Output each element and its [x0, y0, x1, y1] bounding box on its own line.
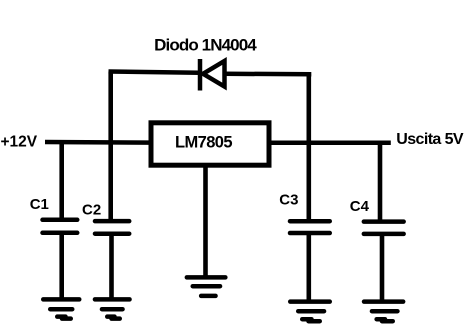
diode D1 triangle	[203, 61, 225, 87]
diode D1 cathode bar	[198, 59, 203, 91]
wire: C2 stub to ground	[109, 234, 114, 300]
capacitor C1 bottom plate	[43, 231, 78, 236]
svg-text:Diodo 1N4004: Diodo 1N4004	[154, 36, 257, 55]
capacitor C3 bottom plate	[290, 231, 330, 236]
capacitor C2 bottom plate	[95, 231, 129, 236]
ground: under C3	[290, 302, 330, 322]
ground: middle (under LM7805)	[187, 277, 226, 296]
capacitor C1 top plate	[43, 218, 78, 223]
svg-text:C3: C3	[279, 192, 298, 209]
wire: LM7805 ground pin stub	[203, 165, 208, 277]
wire: diode loop left leg down through rail to C2	[108, 72, 113, 222]
svg-text:C2: C2	[82, 201, 101, 218]
svg-text:C1: C1	[30, 196, 49, 213]
wire: input rail from +12V to LM7805 input	[45, 140, 152, 145]
ground: under C2	[95, 299, 130, 318]
wire: C4 stub to ground	[380, 234, 385, 302]
wire: output rail from LM7805 to Uscita 5V	[268, 140, 391, 145]
svg-text:+12V: +12V	[1, 134, 38, 151]
svg-text:C4: C4	[350, 198, 370, 215]
svg-text:LM7805: LM7805	[175, 134, 232, 152]
op-amp U1 regulator LM7805 box	[151, 123, 269, 165]
wire: C1 leg from input rail	[59, 142, 64, 220]
wire: C3 stub to ground	[306, 233, 311, 302]
ground: under C1	[43, 299, 79, 318]
capacitor C4 bottom plate	[364, 232, 404, 237]
svg-text:Uscita 5V: Uscita 5V	[396, 131, 464, 148]
wire: diode loop right leg down through output rail to C3	[306, 74, 311, 221]
wire: C4 leg from output rail	[378, 143, 383, 223]
ground: under C4	[364, 302, 403, 322]
wire: C1 stub to ground	[59, 233, 64, 300]
wire: diode loop top, right segment	[224, 72, 311, 77]
capacitor C3 top plate	[290, 219, 330, 224]
capacitor C2 top plate	[95, 219, 129, 224]
capacitor C4 top plate	[364, 219, 404, 224]
wire: diode loop top, left segment	[109, 72, 200, 73]
